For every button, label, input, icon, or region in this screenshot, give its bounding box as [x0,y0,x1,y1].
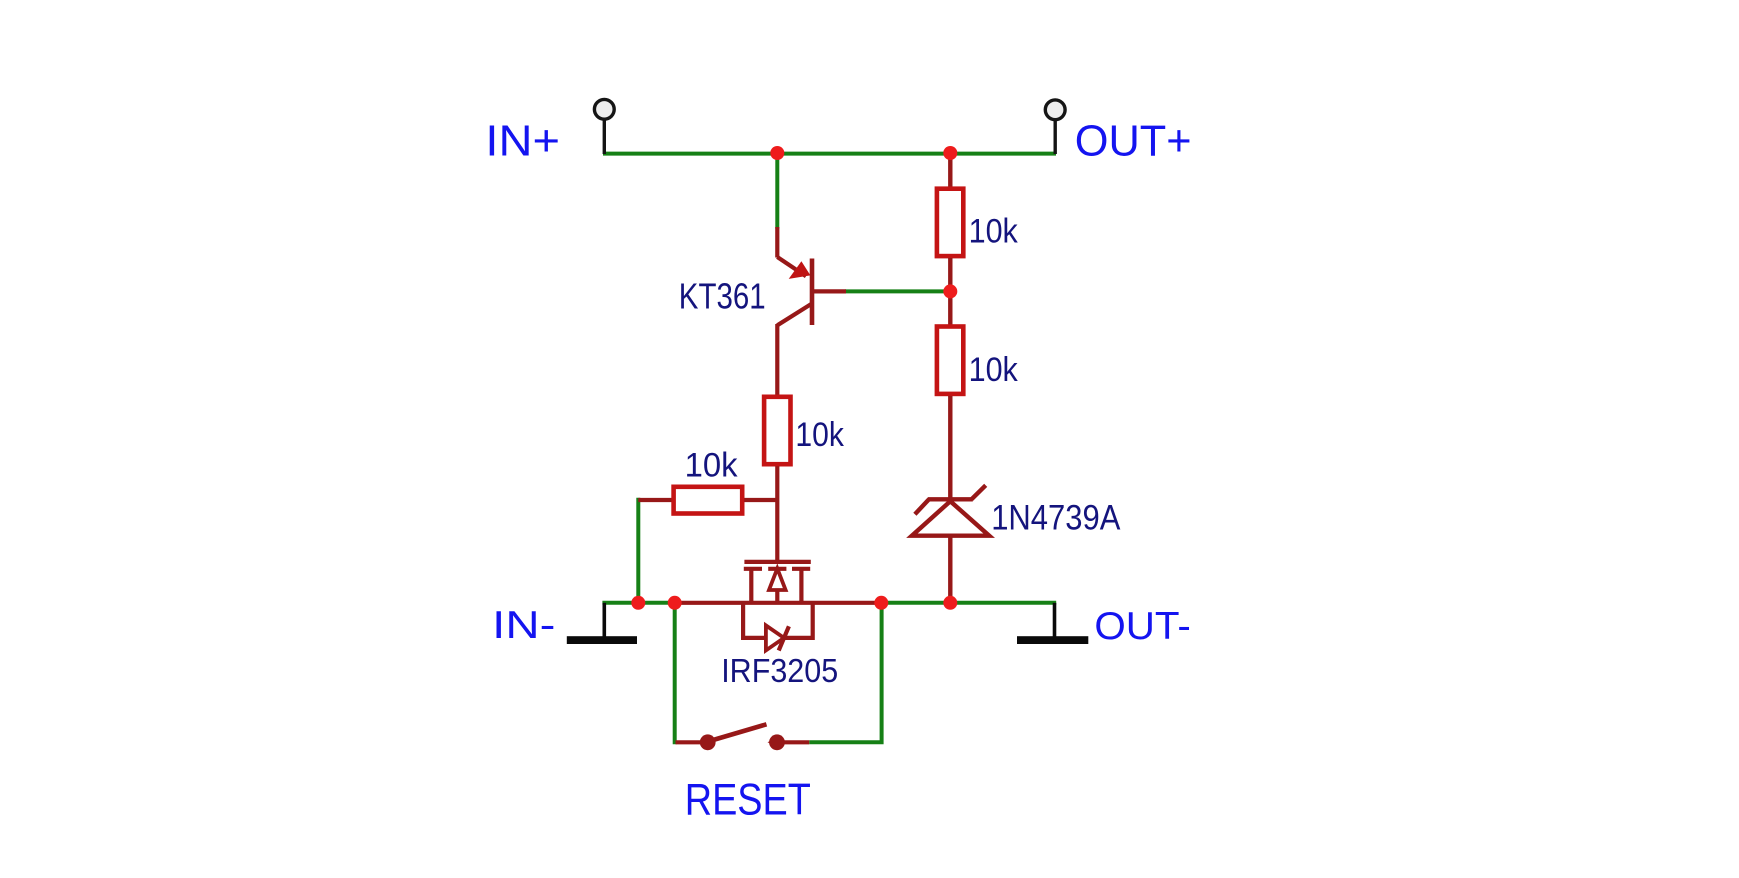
wire: reset loop right green segment [809,601,881,742]
svg-text:IRF3205: IRF3205 [721,652,838,689]
svg-text:OUT-: OUT- [1094,605,1190,648]
junction dot rail reset-left [668,596,682,610]
bar [810,259,815,326]
junction dot base/R1/R2 [943,284,957,298]
cathode bar with bent ends [928,497,973,501]
base lead [812,289,846,293]
transistor Q1 KT361 (PNP) [777,227,846,396]
anode triangle [912,501,989,536]
anode lead [948,536,952,603]
wire: top net IN+ to OUT+ [603,152,1056,156]
resistor R3 10k (vertical, left column) [764,397,790,562]
terminal OUT+ [1045,100,1065,154]
gate bar [744,560,810,564]
svg-text:10k: 10k [795,416,844,454]
channel segments [744,567,762,571]
emitter lead [775,227,779,258]
svg-text:KT361: KT361 [679,275,766,316]
resistor R2 10k (right middle) [937,291,963,500]
drain-source rail [675,601,882,605]
wire: reset loop left vertical [673,601,677,744]
svg-text:IN-: IN- [492,604,555,647]
zener diode D1 1N4739A [912,485,989,603]
wire: emitter drop from top net [775,154,779,229]
svg-text:10k: 10k [969,351,1019,389]
emitter arrowhead [789,261,811,279]
svg-text:OUT+: OUT+ [1075,116,1192,165]
junction dot rail zener [943,596,957,610]
svg-text:10k: 10k [685,446,739,484]
svg-text:IN+: IN+ [485,117,560,165]
wire: bottom rail green right part (MOSFET to OUT-) [880,601,1056,605]
ground IN- [567,603,637,644]
body diode loop [743,603,766,638]
switch S1 RESET [676,724,810,750]
svg-text:RESET: RESET [685,775,811,824]
body diode cathode slant [779,626,789,650]
source leg [749,569,753,603]
junction dot top-left [770,146,784,160]
junction dot rail reset-right [874,596,888,610]
drain leg [799,569,803,603]
resistor R4 10k (horizontal) [638,487,777,514]
svg-text:1N4739A: 1N4739A [991,499,1121,538]
body diode triangle [766,625,784,650]
terminal IN+ [594,99,614,154]
wire: bottom rail green left part (IN- to MOSFET) [602,601,676,605]
junction dot rail gate-divider [631,596,645,610]
collector lead [777,304,812,326]
svg-text:10k: 10k [969,213,1019,251]
MOSFET Q2 IRF3205 [675,562,882,651]
ground OUT- [1017,603,1088,644]
junction dot top-right [943,146,957,160]
wire: base net from transistor to right column [845,289,950,293]
bulk line with arrow [775,569,779,603]
resistor R1 10k (right top) [937,154,963,292]
wire: gate net vertical (left of R4) [636,498,640,603]
